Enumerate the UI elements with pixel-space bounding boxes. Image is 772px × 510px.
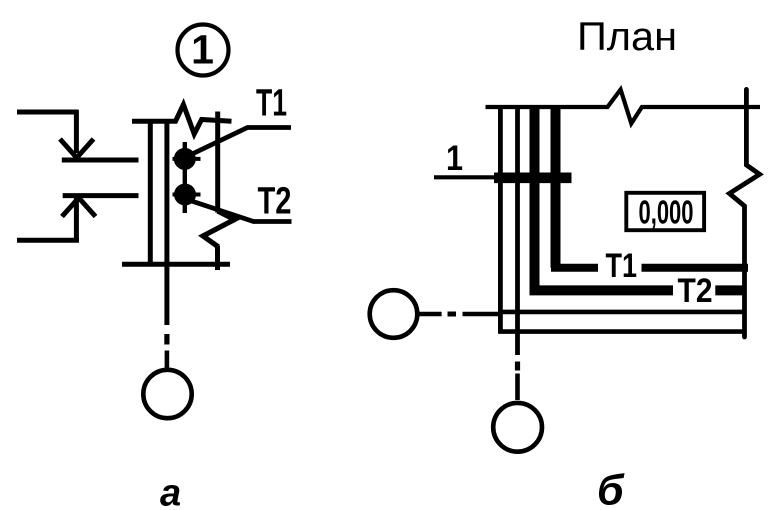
wall top edge with break (fig a) [132,105,232,135]
svg-text:1: 1 [446,139,463,178]
axis dash-dot (fig a) [164,334,169,369]
svg-text:Т1: Т1 [256,83,287,125]
svg-text:Т1: Т1 [606,247,638,285]
inner boundary vertical upper (fig a) [215,112,220,213]
level line T2 (fig a) [63,193,139,198]
svg-text:1: 1 [191,27,214,73]
vertical axis circle (fig b) [493,403,542,452]
pipe T2 circle (fig a) [174,184,196,206]
svg-text:б: б [597,467,625,510]
callout circle 1 (section mark, fig a) [178,25,229,76]
svg-text:Т2: Т2 [258,180,292,222]
pipe T2 tick (fig a) [173,193,201,197]
inner boundary vertical lower (fig a) [215,246,220,270]
pipe T1 run (fig b) [551,108,561,268]
wall face line 2 (fig b) [515,107,520,355]
wall bottom edge (fig a) [122,262,230,267]
pipe riser line through circles (fig a) [183,142,187,213]
inner boundary break zigzag (fig a) [203,211,235,247]
pipe T2 continuation (fig b) [715,285,746,295]
pipe T1 continuation (fig b) [642,264,749,272]
horizontal axis circle (fig b) [370,290,418,338]
wall face line 2 / axis (fig a) [164,119,169,325]
right boundary with break (fig b) [729,89,759,337]
section line 1 thin (fig b) [434,175,497,179]
svg-text:План: План [577,15,677,59]
svg-text:Т2: Т2 [678,272,713,310]
level line T1 (fig a) [62,158,139,163]
pipe T2 run (fig b) [535,108,674,290]
inner wall line B (fig b) [498,329,745,334]
leader T1 (fig a) [189,128,291,156]
wall face line 1 (fig a) [148,119,153,266]
axis circle (fig a) [143,370,191,418]
section line 1 thick (fig b) [494,173,572,184]
top wall edge with break (fig b) [486,90,761,124]
pipe T1 circle (fig a) [174,148,196,170]
inner wall line A (fig b) [500,310,746,315]
wall face line 1 (fig b) [498,107,503,334]
level mark lower (up arrow leader) [17,198,96,241]
level mark upper (down arrow leader) [17,110,94,158]
svg-text:а: а [160,473,181,510]
elevation box 0,000 (fig b) [626,193,704,231]
leader T2 (fig a) [190,201,292,222]
svg-text:0,000: 0,000 [639,194,694,231]
vertical axis dash-dot (fig b) [515,362,520,401]
horizontal axis dash-dot (fig b) [418,312,500,317]
pipe T1 tick (fig a) [173,157,201,161]
